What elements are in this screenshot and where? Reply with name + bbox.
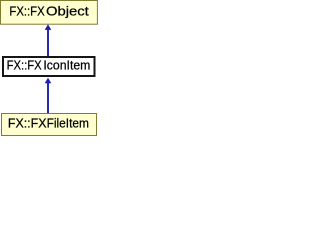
svg-text:FX::FX: FX::FX [7,57,42,72]
label FX::FXIconItem [7,57,91,72]
inheritance arrow 1 head (FXIconItem to FXObject) [45,24,52,30]
svg-text:FX::FX: FX::FX [9,4,45,19]
svg-text:FX::FX: FX::FX [8,115,47,130]
inheritance arrow 2 stem [47,81,49,114]
label FX::FXObject [9,4,89,19]
class box FX::FXIconItem (current class) [3,57,95,76]
class box FX::FXFileItem [2,114,97,136]
inheritance arrow 2 head (FXFileItem to FXIconItem) [45,78,52,84]
svg-text:IconItem: IconItem [43,57,90,72]
svg-text:FileItem: FileItem [47,115,89,130]
class box FX::FXObject [1,1,98,25]
background [0,0,98,136]
svg-text:Object: Object [46,4,89,19]
inheritance arrow 1 stem [47,28,49,57]
label FX::FXFileItem [8,115,89,130]
